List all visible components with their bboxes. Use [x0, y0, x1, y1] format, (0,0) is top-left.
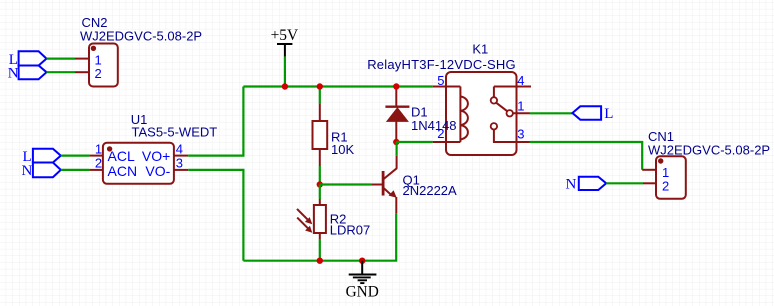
svg-text:3: 3 [176, 156, 183, 171]
netflag L (right) [572, 106, 613, 122]
svg-text:1: 1 [517, 99, 524, 114]
junction +5V/rail [282, 83, 288, 89]
svg-text:RelayHT3F-12VDC-SHG: RelayHT3F-12VDC-SHG [367, 57, 516, 72]
svg-text:5: 5 [437, 73, 444, 88]
transistor Q1 2N2222A [371, 142, 396, 213]
wire collector node to relay pin2 [396, 141, 432, 143]
wire +5V top rail [243, 85, 432, 87]
IC U1 TAS5-5-WEDT body [89, 141, 188, 184]
svg-text:ACL: ACL [108, 148, 135, 164]
svg-text:10K: 10K [331, 142, 354, 157]
relay K1 body [433, 72, 531, 155]
svg-text:3: 3 [517, 126, 524, 141]
wire U1 VO+ up to +5V rail [188, 87, 243, 156]
netflag L (U1) [23, 149, 61, 165]
relay coil [446, 87, 468, 143]
svg-text:ACN: ACN [108, 163, 138, 179]
diode D1 1N4148 [385, 88, 409, 142]
junction R1 top [317, 83, 323, 89]
svg-text:2N2222A: 2N2222A [403, 183, 458, 198]
power flag +5V [271, 27, 299, 56]
svg-text:LDR07: LDR07 [330, 223, 370, 238]
svg-text:N: N [22, 163, 33, 179]
netflag N (right) [566, 177, 607, 193]
svg-text:1N4148: 1N4148 [411, 118, 457, 133]
svg-text:WJ2EDGVC-5.08-2P: WJ2EDGVC-5.08-2P [648, 142, 770, 157]
wire ground bottom rail [243, 213, 396, 260]
relay lever [496, 103, 507, 111]
junction R1 bottom / base node [317, 181, 323, 187]
wire N to CN2 pin2 [47, 71, 76, 73]
svg-text:VO+: VO+ [142, 148, 170, 164]
netflag L (CN2) [9, 51, 47, 68]
wire L to CN2 pin1 [47, 57, 76, 59]
connector CN2 [75, 44, 118, 87]
svg-text:VO-: VO- [145, 163, 170, 179]
svg-text:K1: K1 [472, 41, 488, 56]
wire N to U1 pin2 [61, 169, 89, 171]
resistor R1 [313, 87, 328, 185]
wire relay pin1 to L flag [530, 112, 573, 114]
svg-text:+5V: +5V [271, 27, 299, 44]
svg-text:GND: GND [346, 284, 379, 301]
svg-text:2: 2 [95, 156, 102, 171]
wire relay pin3 to CN1 pin1 [530, 142, 643, 170]
svg-text:2: 2 [662, 178, 669, 193]
svg-text:4: 4 [176, 141, 183, 156]
relay contact pin1 [507, 110, 530, 116]
wire +5V stem [284, 57, 286, 87]
wire base node to Q1 [320, 183, 372, 185]
svg-text:TAS5-5-WEDT: TAS5-5-WEDT [132, 125, 218, 140]
netflag N (U1) [22, 163, 61, 180]
junction R2 bottom rail [317, 258, 323, 264]
relay switch common pin4 [491, 87, 531, 104]
svg-text:N: N [566, 177, 577, 193]
svg-text:2: 2 [95, 66, 102, 81]
wire L to U1 pin1 [61, 155, 89, 157]
junction D1 top [393, 83, 399, 89]
connector CN1 [642, 156, 686, 199]
svg-text:1: 1 [95, 141, 102, 156]
photoresistor R2 LDR07 [297, 185, 326, 261]
svg-text:4: 4 [517, 73, 524, 88]
ground symbol GND [346, 258, 379, 301]
svg-text:L: L [604, 106, 613, 122]
svg-text:N: N [8, 65, 19, 81]
svg-text:WJ2EDGVC-5.08-2P: WJ2EDGVC-5.08-2P [80, 28, 202, 43]
relay contact pin3 [491, 123, 530, 142]
junction D1 bottom / collector node [393, 139, 399, 145]
netflag N (CN2) [8, 65, 47, 81]
wire U1 VO- down to ground rail [188, 170, 243, 261]
wire N flag to CN1 pin2 [606, 182, 643, 184]
